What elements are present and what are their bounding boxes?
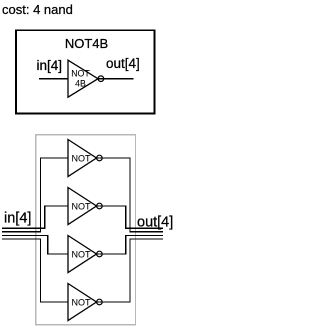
module boundary (gray box): [36, 135, 136, 325]
gate G4 NOT: [68, 284, 102, 321]
symbol box NOT4B: [16, 30, 155, 113]
gate G2 NOT: [68, 188, 102, 225]
wire out bit3: [97, 239, 164, 302]
wire in bit2 stub: [2, 235, 68, 254]
svg-text:4B: 4B: [75, 78, 86, 88]
gate G3 NOT: [68, 236, 102, 273]
svg-text:NOT: NOT: [72, 250, 92, 260]
wire out bit0: [97, 206, 164, 228]
inverter U0 bubble: [98, 76, 104, 82]
wire in bit1 stub: [2, 158, 68, 232]
svg-text:NOT: NOT: [72, 298, 92, 308]
svg-text:NOT: NOT: [72, 154, 92, 164]
wire out bit2: [97, 235, 164, 254]
svg-text:NOT: NOT: [71, 69, 90, 79]
wire out bit1: [97, 158, 164, 232]
wire in bit3 stub: [2, 239, 68, 302]
gate G1 NOT: [68, 140, 102, 177]
wire output (symbol): [98, 78, 134, 80]
svg-text:cost: 4 nand: cost: 4 nand: [2, 2, 73, 17]
svg-text:NOT: NOT: [72, 202, 92, 212]
svg-text:in[4]: in[4]: [36, 58, 62, 73]
svg-text:in[4]: in[4]: [4, 211, 31, 227]
wire in bit0 stub: [2, 206, 68, 228]
wire input (symbol): [39, 78, 68, 80]
svg-text:NOT4B: NOT4B: [65, 36, 108, 51]
svg-text:out[4]: out[4]: [106, 56, 140, 71]
inverter U0 triangle (symbol): [68, 60, 98, 97]
